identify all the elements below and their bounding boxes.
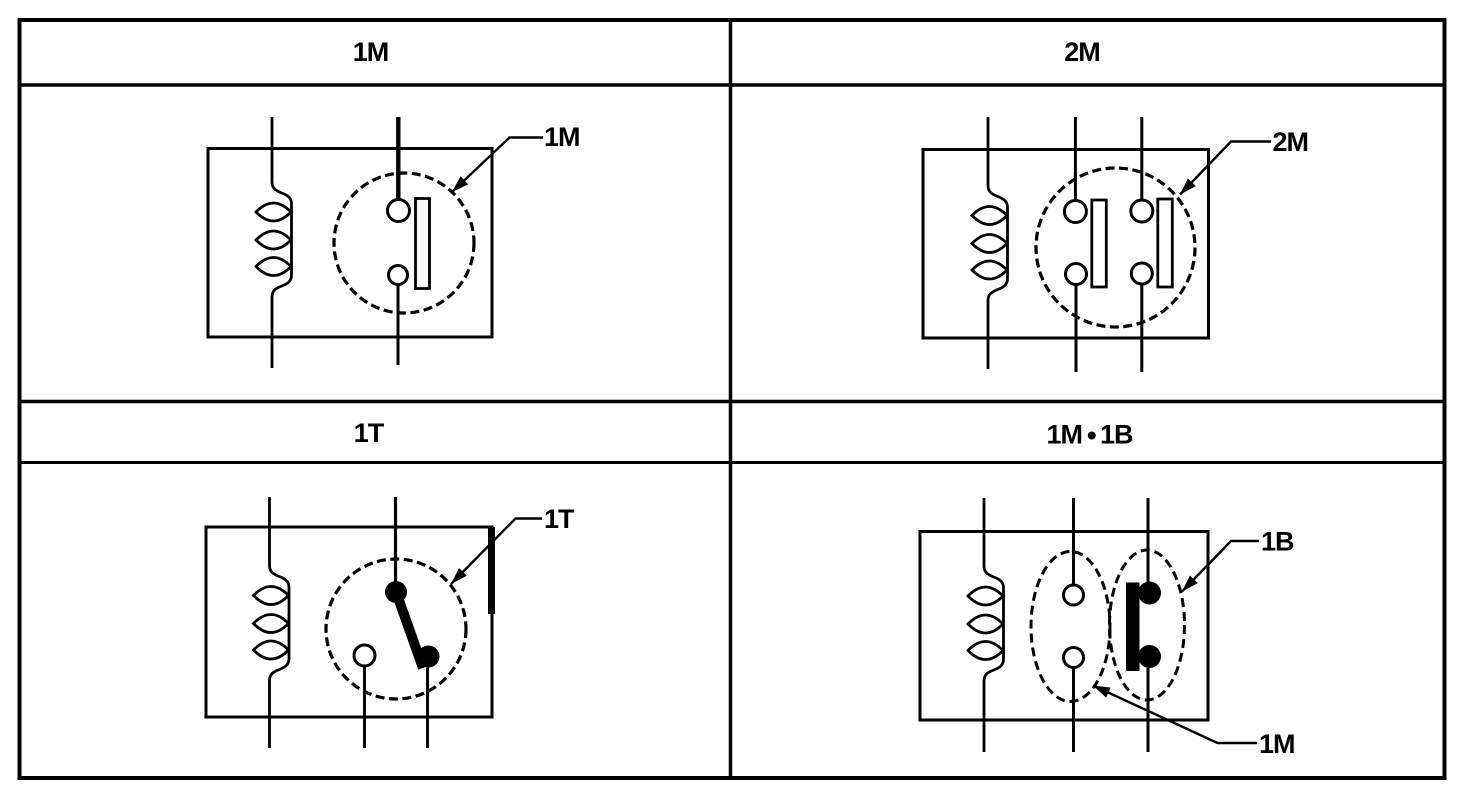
wire contact A top lead [1074,117,1077,201]
table header divider row 1 [20,83,1445,87]
contact movable bar [416,199,430,289]
svg-text:1T: 1T [354,418,385,448]
svg-text:1M: 1M [353,37,389,67]
coil K3 [254,566,290,681]
wire coil bottom lead [271,297,274,368]
svg-text:1B: 1B [1100,420,1133,450]
leader line 2M [1180,142,1271,195]
dashed enclosure 1T [326,559,466,699]
contact stationary point bottom [389,266,408,285]
contact stationary point top [388,200,410,222]
coil K2 [972,186,1008,301]
contact B point top [1131,200,1153,222]
relay box K2 [923,150,1209,339]
switch pivot dot top [385,581,407,603]
wire make contact bottom lead [1072,668,1075,753]
svg-text:1M: 1M [1259,729,1295,759]
arrowhead 1T [451,568,467,584]
coil K1 [256,182,292,297]
break contact dot top [1138,582,1161,605]
wire coil bottom lead [983,681,986,752]
wire contact B bottom lead [1140,284,1143,373]
svg-text:2M: 2M [1064,37,1100,67]
wire coil top lead [987,117,990,186]
wire contact top lead (bold) [396,117,400,201]
relay box K3 [206,527,492,717]
contact B point bottom [1131,263,1152,284]
svg-text:1T: 1T [544,504,575,534]
wire coil bottom lead [268,681,271,749]
svg-text:1M: 1M [544,122,580,152]
make contact point top [1064,585,1084,605]
dashed enclosure 1M [334,173,474,313]
dashed enclosure 2M [1036,168,1195,327]
arrowhead 2M [1180,178,1196,194]
wire closed contact lead [426,668,429,749]
arrowhead 1M lower [1093,686,1111,698]
dashed enclosure 1M ellipse [1031,552,1110,702]
wire coil top lead [268,497,271,566]
contact B movable bar [1158,199,1173,287]
wire break contact top lead [1147,498,1150,584]
switch throw arm [396,592,423,668]
contact A point top [1064,201,1086,223]
break contact bar [1126,583,1140,672]
wire make contact top lead [1072,498,1075,585]
wire open contact lead [363,666,366,748]
table mid divider [20,400,1445,404]
contact A point bottom [1066,264,1087,285]
svg-text:1M: 1M [1046,420,1082,450]
arrowhead 1B [1182,576,1198,592]
svg-text:1B: 1B [1261,527,1294,557]
relay box K3 right edge scan thickening [488,527,495,614]
leader line 1M lower [1093,686,1257,744]
break contact dot bottom [1138,645,1161,668]
wire switch top lead [394,497,397,585]
dashed enclosure 1B ellipse [1110,550,1185,700]
contact A movable bar [1092,200,1107,287]
wire coil top lead [983,498,986,566]
make contact point bottom [1064,648,1084,668]
wire contact B top lead [1140,117,1143,200]
relay box K4 [920,532,1208,721]
arrowhead 1M [452,176,468,192]
wire coil bottom lead [987,301,990,370]
relay box K1 [208,149,492,338]
wire contact bottom lead [397,285,400,366]
switch contact dot bottom [418,646,440,668]
wire coil top lead [271,117,274,182]
svg-text:2M: 2M [1273,127,1309,157]
leader line 1T [451,519,542,585]
table center vertical divider [729,20,733,778]
open contact point [354,645,375,666]
wire break contact bottom lead [1147,668,1150,752]
leader line 1M [452,138,543,193]
wire contact A bottom lead [1075,285,1078,373]
leader line 1B [1182,541,1259,592]
coil K4 [968,566,1004,681]
table header divider row 2 [20,461,1445,464]
